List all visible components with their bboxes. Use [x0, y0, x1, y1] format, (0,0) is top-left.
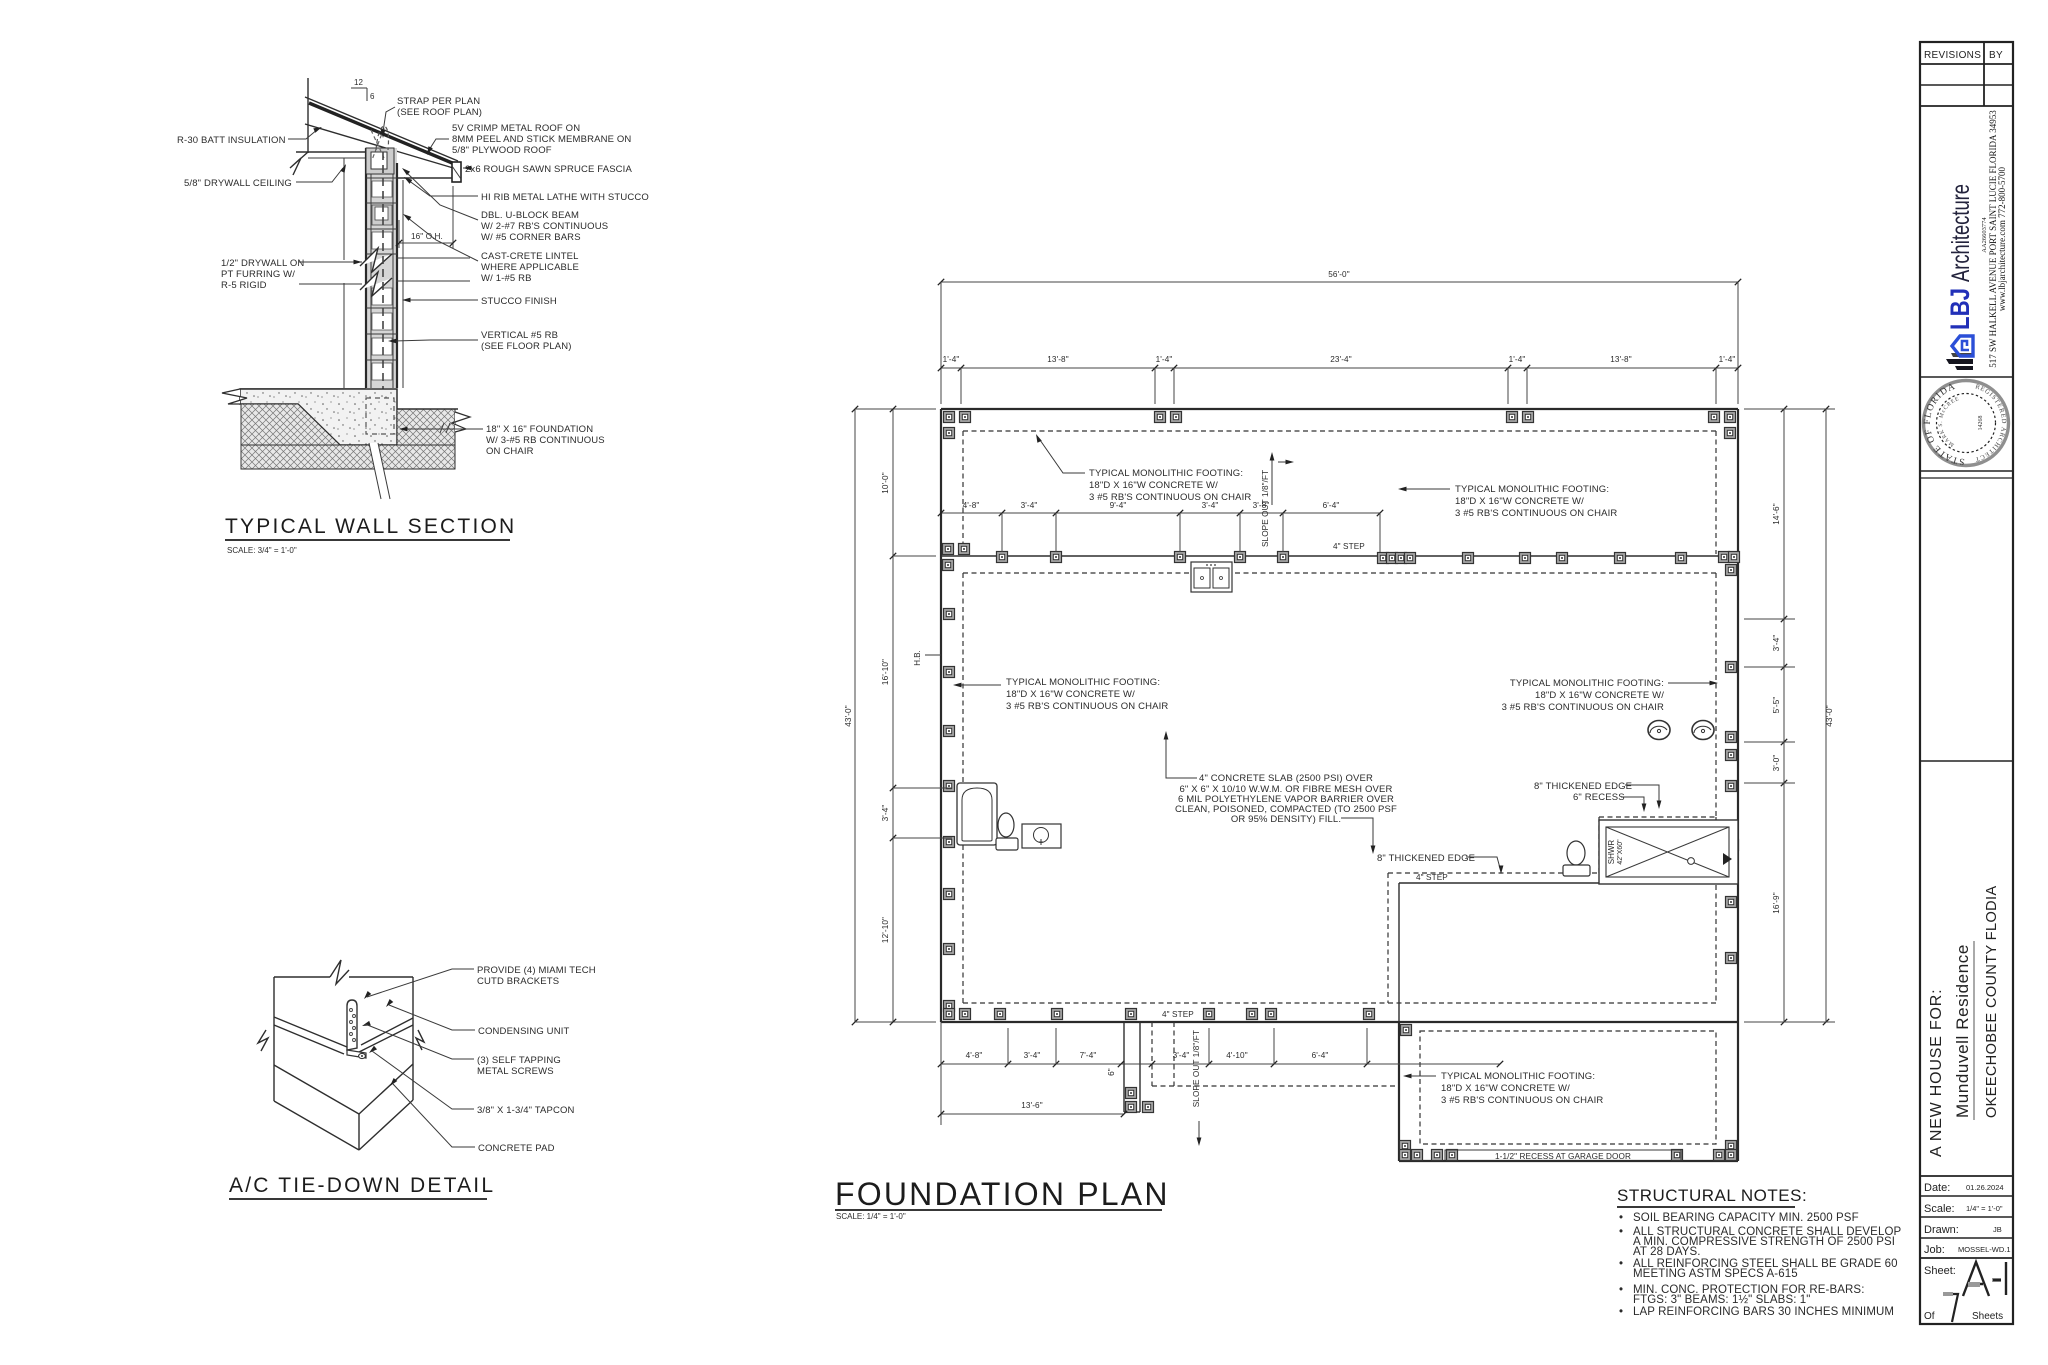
- svg-text:14'-6": 14'-6": [1772, 503, 1781, 524]
- svg-text:FOUNDATION PLAN: FOUNDATION PLAN: [835, 1176, 1170, 1212]
- dashed foundation block: [366, 398, 394, 434]
- svg-text:REVISIONS: REVISIONS: [1924, 50, 1981, 61]
- svg-text:3 #5 RB'S CONTINUOUS ON CHAIR: 3 #5 RB'S CONTINUOUS ON CHAIR: [1455, 508, 1617, 519]
- pad top edges: [274, 1065, 359, 1114]
- shower: [1599, 820, 1738, 884]
- svg-text:Date:: Date:: [1924, 1182, 1950, 1194]
- svg-text:1-1/2" RECESS AT GARAGE DOOR: 1-1/2" RECESS AT GARAGE DOOR: [1495, 1152, 1631, 1161]
- empty block divider: [1920, 760, 2013, 762]
- svg-text:8" THICKENED EDGE: 8" THICKENED EDGE: [1377, 853, 1475, 864]
- svg-text:MEETING ASTM SPECS A-615: MEETING ASTM SPECS A-615: [1633, 1268, 1798, 1280]
- svg-text:•: •: [1619, 1258, 1623, 1270]
- svg-text:SLOPE OUT 1/8"/FT: SLOPE OUT 1/8"/FT: [1192, 1030, 1201, 1107]
- svg-text:TYPICAL MONOLITHIC FOOTING:: TYPICAL MONOLITHIC FOOTING:: [1455, 484, 1609, 495]
- svg-text:6": 6": [1107, 1068, 1116, 1076]
- patio dashed: [1151, 1022, 1153, 1086]
- svg-text:R-30 BATT INSULATION: R-30 BATT INSULATION: [177, 135, 286, 146]
- svg-text:5'-5": 5'-5": [1772, 697, 1781, 714]
- svg-text:6" RECESS: 6" RECESS: [1573, 792, 1625, 803]
- svg-text:16'-10": 16'-10": [881, 659, 890, 685]
- block courses: [366, 177, 397, 179]
- svg-text:Of: Of: [1924, 1311, 1935, 1322]
- svg-text:OR 95% DENSITY) FILL.: OR 95% DENSITY) FILL.: [1231, 814, 1341, 825]
- svg-text:13'-6": 13'-6": [1021, 1101, 1042, 1110]
- svg-text:1'-4": 1'-4": [1509, 355, 1526, 364]
- svg-text:6'-4": 6'-4": [1312, 1051, 1329, 1060]
- patio notch squares: [1126, 1088, 1137, 1099]
- svg-text:18"D X 16"W CONCRETE W/: 18"D X 16"W CONCRETE W/: [1455, 496, 1584, 507]
- condensing unit box: [274, 976, 330, 978]
- svg-text:•: •: [1619, 1306, 1623, 1318]
- break marks: [258, 1030, 268, 1051]
- svg-text:43'-0": 43'-0": [1825, 705, 1834, 726]
- earth crosshatch left triangle: [241, 404, 340, 445]
- interior floor line: [240, 388, 366, 390]
- 16" O.H. dimension: [399, 242, 453, 244]
- svg-text:4'-8": 4'-8": [963, 501, 980, 510]
- svg-text:LBJ: LBJ: [1945, 288, 1975, 330]
- strap X dashed: [371, 128, 384, 160]
- svg-text:A NEW HOUSE FOR:: A NEW HOUSE FOR:: [1928, 989, 1945, 1157]
- svg-text:SCALE: 3/4" = 1'-0": SCALE: 3/4" = 1'-0": [227, 546, 297, 555]
- slab left break zigzag: [222, 389, 247, 404]
- black arrows: [362, 991, 371, 1001]
- unit base diagonals: [274, 1017, 347, 1047]
- svg-text:(3) SELF TAPPING: (3) SELF TAPPING: [477, 1055, 561, 1066]
- svg-text:1'-4": 1'-4": [1156, 355, 1173, 364]
- toilet 1: [998, 813, 1014, 837]
- svg-text:TYPICAL MONOLITHIC FOOTING:: TYPICAL MONOLITHIC FOOTING:: [1089, 468, 1243, 479]
- svg-text:W/ #5 CORNER BARS: W/ #5 CORNER BARS: [481, 232, 581, 243]
- svg-text:W/ 2-#7 RB'S CONTINUOUS: W/ 2-#7 RB'S CONTINUOUS: [481, 221, 608, 232]
- svg-text:STRAP PER PLAN: STRAP PER PLAN: [397, 96, 480, 107]
- bracket: [347, 1000, 357, 1050]
- svg-text:7'-4": 7'-4": [1080, 1051, 1097, 1060]
- svg-text:10'-0": 10'-0": [881, 472, 890, 493]
- svg-text:HI RIB METAL LATHE WITH STUCCO: HI RIB METAL LATHE WITH STUCCO: [481, 192, 649, 203]
- ceiling break zigzag: [290, 152, 308, 175]
- vertical rebar dashed: [362, 152, 383, 432]
- svg-text:5V CRIMP METAL ROOF ON: 5V CRIMP METAL ROOF ON: [452, 123, 580, 134]
- svg-text:W/ 1-#5 RB: W/ 1-#5 RB: [481, 273, 532, 284]
- svg-text:SOIL BEARING CAPACITY MIN. 25: SOIL BEARING CAPACITY MIN. 2500 PSF: [1633, 1212, 1859, 1224]
- garage squares: [1401, 1025, 1412, 1036]
- svg-text:43'-0": 43'-0": [844, 705, 853, 726]
- svg-text:AA26603774: AA26603774: [1981, 217, 1988, 253]
- earth crosshatch bottom band: [241, 445, 455, 469]
- svg-text:Job:: Job:: [1924, 1244, 1945, 1256]
- bathtub: [957, 783, 997, 845]
- fascia 2x6: [452, 162, 461, 182]
- svg-text:WHERE APPLICABLE: WHERE APPLICABLE: [481, 262, 579, 273]
- lanai wall vertical: [1398, 883, 1400, 1022]
- svg-text:SCALE: 1/4" = 1'-0": SCALE: 1/4" = 1'-0": [836, 1212, 906, 1221]
- north footing wall: [941, 408, 1738, 410]
- svg-text:3'-4": 3'-4": [1173, 1051, 1190, 1060]
- svg-text:8" THICKENED EDGE: 8" THICKENED EDGE: [1534, 781, 1632, 792]
- svg-text:42"X60": 42"X60": [1617, 839, 1624, 865]
- svg-text:METAL SCREWS: METAL SCREWS: [477, 1066, 554, 1077]
- svg-text:4'-10": 4'-10": [1226, 1051, 1247, 1060]
- svg-text:•: •: [1619, 1284, 1623, 1296]
- svg-text:3'-4": 3'-4": [1024, 1051, 1041, 1060]
- svg-text:3 #5 RB'S CONTINUOUS ON CHAIR: 3 #5 RB'S CONTINUOUS ON CHAIR: [1441, 1095, 1603, 1106]
- svg-text:1/2" DRYWALL ON: 1/2" DRYWALL ON: [221, 258, 304, 269]
- svg-text:R-5 RIGID: R-5 RIGID: [221, 280, 267, 291]
- wall block band: [366, 148, 397, 388]
- south footing wall / garage top: [941, 1021, 1738, 1023]
- svg-text:PT FURRING W/: PT FURRING W/: [221, 269, 295, 280]
- svg-text:TYPICAL WALL SECTION: TYPICAL WALL SECTION: [225, 515, 516, 538]
- svg-text:LAP REINFORCING BARS 30 INCHES: LAP REINFORCING BARS 30 INCHES MINIMUM: [1633, 1306, 1894, 1318]
- svg-text:1/4" = 1'-0": 1/4" = 1'-0": [1966, 1204, 2003, 1213]
- svg-text:8MM PEEL AND STICK MEMBRANE ON: 8MM PEEL AND STICK MEMBRANE ON: [452, 134, 631, 145]
- svg-text:Munduvell Residence: Munduvell Residence: [1953, 944, 1972, 1118]
- floor drains: [1648, 721, 1670, 740]
- hose bib: [925, 654, 941, 656]
- svg-text:18"D X 16"W CONCRETE W/: 18"D X 16"W CONCRETE W/: [1089, 480, 1218, 491]
- lintel cell: [372, 205, 392, 225]
- svg-text:BY: BY: [1989, 50, 2003, 61]
- patio stoop wall left: [1123, 1022, 1125, 1112]
- svg-text:SLOPE OUT 1/8"/FT: SLOPE OUT 1/8"/FT: [1261, 470, 1270, 547]
- footing squares: left wall: [944, 609, 955, 620]
- svg-text:FTGS: 3" BEAMS: 1½" SLABS:: FTGS: 3" BEAMS: 1½" SLABS: 1": [1633, 1294, 1811, 1306]
- east footing wall: [1737, 409, 1739, 1161]
- footing squares: top wall: [944, 412, 955, 423]
- svg-text:18"D X 16"W CONCRETE W/: 18"D X 16"W CONCRETE W/: [1441, 1083, 1570, 1094]
- svg-text:H.B.: H.B.: [913, 650, 922, 666]
- roof underside chord: [305, 124, 460, 170]
- svg-text:CUTD BRACKETS: CUTD BRACKETS: [477, 976, 559, 987]
- svg-text:1'-4": 1'-4": [943, 355, 960, 364]
- right wall squares: [1726, 662, 1737, 673]
- svg-text:(SEE ROOF PLAN): (SEE ROOF PLAN): [397, 107, 482, 118]
- svg-text:6: 6: [370, 92, 375, 101]
- svg-text:Scale:: Scale:: [1924, 1203, 1955, 1215]
- slope marker 12/6: [351, 87, 367, 89]
- svg-text:12'-10": 12'-10": [881, 917, 890, 943]
- svg-text:SHWR: SHWR: [1607, 840, 1616, 865]
- top U-block beam cell: [366, 148, 394, 174]
- svg-text:TYPICAL MONOLITHIC FOOTING:: TYPICAL MONOLITHIC FOOTING:: [1006, 677, 1160, 688]
- svg-text:MOSSEL-WD.1: MOSSEL-WD.1: [1958, 1245, 2011, 1254]
- lanai dashed: [1388, 872, 1599, 874]
- pad bottom edges: [274, 1101, 359, 1150]
- svg-text:12: 12: [354, 78, 363, 87]
- svg-text:13'-8": 13'-8": [1610, 355, 1631, 364]
- wall break zigzag: [360, 248, 392, 272]
- svg-text:3 #5 RB'S CONTINUOUS ON CHAIR: 3 #5 RB'S CONTINUOUS ON CHAIR: [1502, 702, 1664, 713]
- svg-text:Architecture: Architecture: [1947, 184, 1975, 282]
- svg-text:4" STEP: 4" STEP: [1162, 1010, 1194, 1019]
- kitchen sink: [1191, 562, 1232, 592]
- svg-text:•: •: [1619, 1226, 1623, 1238]
- dashed footing lines: top strip: [963, 430, 1716, 432]
- svg-text:5/8" DRYWALL CEILING: 5/8" DRYWALL CEILING: [184, 178, 292, 189]
- toilet 2 (near shower): [1567, 841, 1585, 865]
- svg-text:5/8" PLYWOOD ROOF: 5/8" PLYWOOD ROOF: [452, 145, 552, 156]
- svg-text:3'-0": 3'-0": [1772, 755, 1781, 772]
- interior cut line (left of roof): [307, 78, 309, 153]
- roof slope top chord: [305, 97, 458, 161]
- dashed footing: main area: [963, 572, 1716, 574]
- svg-text:CONCRETE PAD: CONCRETE PAD: [478, 1143, 555, 1154]
- patio stoop wall right: [1139, 1022, 1141, 1112]
- revisions header: [1920, 63, 2013, 65]
- break lines left/right: [299, 261, 362, 263]
- svg-text:18"D X 16"W CONCRETE W/: 18"D X 16"W CONCRETE W/: [1535, 690, 1664, 701]
- svg-text:www.lbjarchitecture.com 772-80: www.lbjarchitecture.com 772-800-5700: [1997, 166, 2007, 311]
- info rows: [1920, 1175, 2013, 1177]
- svg-text:CONDENSING UNIT: CONDENSING UNIT: [478, 1026, 569, 1037]
- svg-text:1'-4": 1'-4": [1719, 355, 1736, 364]
- svg-text:(SEE FLOOR PLAN): (SEE FLOOR PLAN): [481, 341, 572, 352]
- svg-text:01.26.2024: 01.26.2024: [1966, 1183, 2004, 1192]
- interior step wall: [941, 555, 1738, 557]
- bottom V break: [369, 443, 390, 499]
- svg-text:23'-4": 23'-4": [1330, 355, 1351, 364]
- svg-text:3/8" X 1-3/4" TAPCON: 3/8" X 1-3/4" TAPCON: [477, 1105, 575, 1116]
- svg-text:3 #5 RB'S CONTINUOUS ON CHAIR: 3 #5 RB'S CONTINUOUS ON CHAIR: [1006, 701, 1168, 712]
- svg-text:OKEECHOBEE COUNTY FLODIA: OKEECHOBEE COUNTY FLODIA: [1984, 885, 2000, 1118]
- svg-text:A/C TIE-DOWN DETAIL: A/C TIE-DOWN DETAIL: [229, 1174, 495, 1197]
- footing squares: step wall: [943, 544, 954, 555]
- svg-text:4" STEP: 4" STEP: [1416, 873, 1448, 882]
- footing concrete stipple: [240, 389, 397, 445]
- svg-text:JB: JB: [1993, 1225, 2002, 1234]
- slope out arrow top: [1271, 458, 1273, 505]
- svg-text:6'-4": 6'-4": [1323, 501, 1340, 510]
- svg-text:Sheets: Sheets: [1972, 1311, 2003, 1322]
- svg-text:PROVIDE (4) MIAMI TECH: PROVIDE (4) MIAMI TECH: [477, 965, 596, 976]
- svg-text:18" X 16" FOUNDATION: 18" X 16" FOUNDATION: [486, 424, 593, 435]
- svg-text:56'-0": 56'-0": [1328, 270, 1349, 279]
- svg-text:3'-4": 3'-4": [881, 805, 890, 822]
- patio stoop wall bottom: [1124, 1111, 1140, 1113]
- svg-text:TYPICAL MONOLITHIC FOOTING:: TYPICAL MONOLITHIC FOOTING:: [1441, 1071, 1595, 1082]
- svg-text:DBL. U-BLOCK BEAM: DBL. U-BLOCK BEAM: [481, 210, 579, 221]
- svg-text:VERTICAL #5 RB: VERTICAL #5 RB: [481, 330, 558, 341]
- soffit line: [397, 177, 452, 179]
- svg-text:4'-8": 4'-8": [966, 1051, 983, 1060]
- roof metal band: [309, 103, 457, 165]
- svg-text:TYPICAL MONOLITHIC FOOTING:: TYPICAL MONOLITHIC FOOTING:: [1510, 678, 1664, 689]
- svg-text:STUCCO FINISH: STUCCO FINISH: [481, 296, 557, 307]
- west footing wall: [940, 409, 942, 1022]
- earth crosshatch right band: [397, 409, 455, 445]
- bracket flange + screw: [347, 1050, 366, 1058]
- strap at top dashed: [376, 126, 389, 150]
- svg-text:2x6 ROUGH SAWN SPRUCE FASCIA: 2x6 ROUGH SAWN SPRUCE FASCIA: [465, 164, 632, 175]
- svg-text:•: •: [1619, 1212, 1623, 1224]
- lanai wall horizontal: [1399, 882, 1599, 884]
- svg-text:18"D X 16"W CONCRETE W/: 18"D X 16"W CONCRETE W/: [1006, 689, 1135, 700]
- footing squares: bottom wall: [944, 1009, 955, 1020]
- svg-text:Drawn:: Drawn:: [1924, 1224, 1959, 1236]
- garage west wall: [1398, 1022, 1400, 1161]
- svg-text:3'-4": 3'-4": [1021, 501, 1038, 510]
- vanity: [1022, 824, 1061, 848]
- garage dashed: [1420, 1031, 1716, 1144]
- right break zigzag: [452, 412, 470, 432]
- garage south wall: [1399, 1160, 1738, 1162]
- svg-text:ON CHAIR: ON CHAIR: [486, 446, 534, 457]
- svg-text:W/ 3-#5 RB CONTINUOUS: W/ 3-#5 RB CONTINUOUS: [486, 435, 605, 446]
- svg-text:14268: 14268: [1978, 416, 1984, 431]
- svg-text:Sheet:: Sheet:: [1924, 1265, 1956, 1277]
- svg-text:3 #5 RB'S CONTINUOUS ON CHAIR: 3 #5 RB'S CONTINUOUS ON CHAIR: [1089, 492, 1251, 503]
- LBJ logo (rotated): [1945, 184, 1975, 370]
- svg-text:AT 28 DAYS.: AT 28 DAYS.: [1633, 1246, 1701, 1258]
- svg-text:3'-4": 3'-4": [1772, 635, 1781, 652]
- grade line right: [397, 408, 458, 410]
- ceiling double line: [296, 151, 366, 153]
- left edge vertical: [240, 404, 242, 469]
- svg-text:CAST-CRETE LINTEL: CAST-CRETE LINTEL: [481, 251, 579, 262]
- svg-text:16'-9": 16'-9": [1772, 892, 1781, 913]
- icon (drawn in horizontal frame, before text): [1946, 336, 1973, 370]
- svg-text:4" CONCRETE SLAB (2500 PSI) OV: 4" CONCRETE SLAB (2500 PSI) OVER: [1199, 773, 1373, 784]
- seal section: [1920, 376, 2013, 378]
- svg-text:13'-8": 13'-8": [1047, 355, 1068, 364]
- svg-text:STRUCTURAL NOTES:: STRUCTURAL NOTES:: [1617, 1186, 1807, 1205]
- svg-text:4" STEP: 4" STEP: [1333, 542, 1365, 551]
